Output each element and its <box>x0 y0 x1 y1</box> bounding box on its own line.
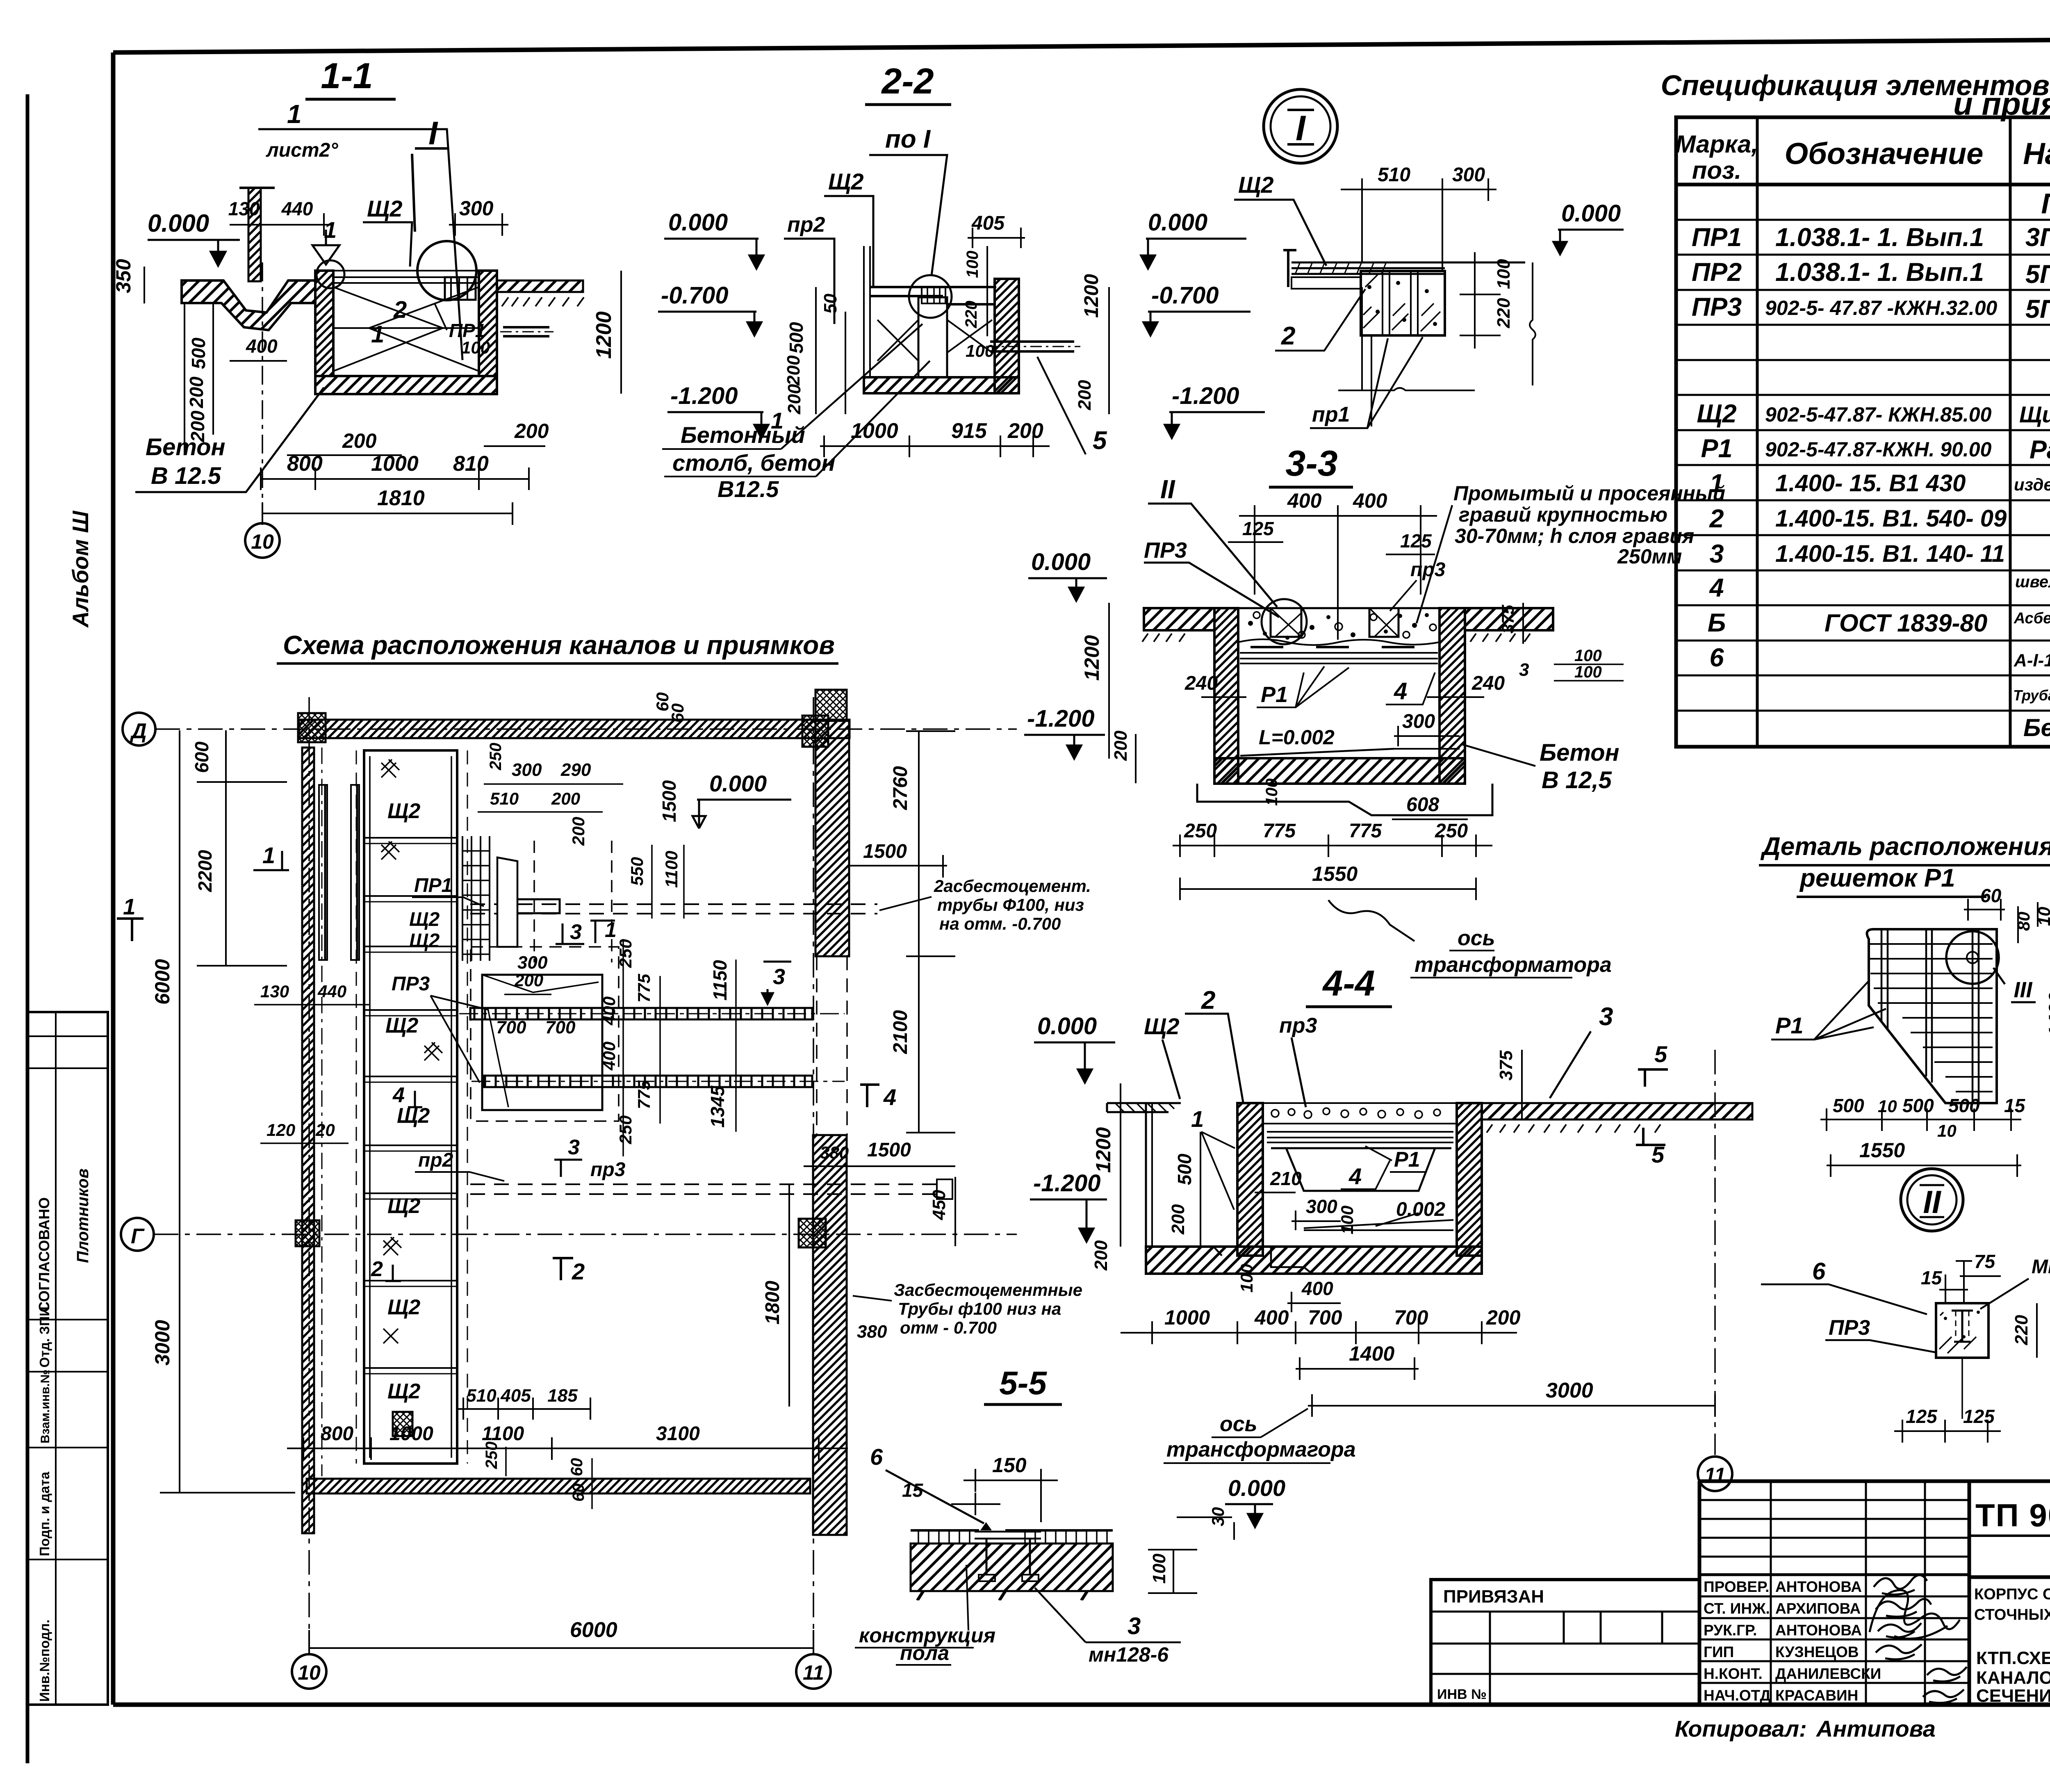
svg-text:1150: 1150 <box>709 960 731 1001</box>
R1 trough <box>1271 1148 1451 1191</box>
svg-text:250: 250 <box>1435 820 1468 842</box>
left top column box <box>298 713 326 742</box>
top wall band axis D <box>299 720 850 738</box>
svg-text:550: 550 <box>627 857 647 886</box>
svg-text:1: 1 <box>605 918 617 942</box>
rails on ledges <box>1240 653 1438 663</box>
circled II <box>1901 1169 1963 1231</box>
svg-text:В 12,5: В 12,5 <box>1542 767 1612 793</box>
central pit dashed + solid <box>471 947 619 1121</box>
svg-text:608: 608 <box>1406 794 1439 816</box>
svg-text:380: 380 <box>820 1143 849 1162</box>
svg-text:810: 810 <box>453 452 489 476</box>
right wall hatched <box>995 279 1019 393</box>
svg-text:300: 300 <box>1452 164 1485 186</box>
svg-text:220: 220 <box>1494 298 1514 328</box>
svg-text:3: 3 <box>1127 1613 1141 1639</box>
axis D <box>123 713 155 746</box>
svg-text:400: 400 <box>1254 1306 1289 1329</box>
vertical bars <box>1881 929 1979 1103</box>
svg-text:1100: 1100 <box>662 851 681 888</box>
truss braces in pit <box>333 287 479 371</box>
svg-text:4: 4 <box>392 1083 405 1107</box>
svg-text:1000: 1000 <box>389 1423 433 1445</box>
svg-text:ПР1: ПР1 <box>414 875 452 896</box>
svg-text:столб, бетон: столб, бетон <box>672 450 835 476</box>
svg-text:Плотников: Плотников <box>74 1168 92 1263</box>
right dims 100 220 <box>1460 252 1501 349</box>
pit walls <box>1214 608 1238 784</box>
svg-text:60: 60 <box>1980 885 2002 906</box>
title block <box>1699 1481 2050 1705</box>
left margin stamp column <box>28 1012 108 1705</box>
svg-text:ось: ось <box>1458 926 1495 950</box>
privyazan box <box>1431 1580 1699 1705</box>
svg-text:10: 10 <box>1878 1097 1897 1116</box>
svg-text:902-5-47.87-КЖН. 90.00: 902-5-47.87-КЖН. 90.00 <box>1765 438 1992 461</box>
svg-text:Н.КОНТ.: Н.КОНТ. <box>1704 1665 1763 1682</box>
right inner wall hatched <box>1457 1103 1482 1256</box>
horizontal panel Sh2 <box>1291 262 1525 274</box>
svg-text:I: I <box>1296 109 1306 148</box>
svg-text:КРАСАВИН: КРАСАВИН <box>1775 1687 1858 1704</box>
axis 10 <box>262 262 263 521</box>
pit right wall <box>479 271 497 376</box>
svg-text:300: 300 <box>459 197 494 220</box>
svg-text:КАНАЛОВ И ПРИЯМКОВ.: КАНАЛОВ И ПРИЯМКОВ. <box>1976 1668 2050 1688</box>
concrete block <box>1936 1303 1988 1358</box>
upper wall stub <box>248 188 261 281</box>
svg-text:1: 1 <box>287 99 302 129</box>
svg-text:ПРИВЯЗАН: ПРИВЯЗАН <box>1443 1587 1544 1607</box>
svg-text:Подп. и дата: Подп. и дата <box>37 1471 52 1556</box>
svg-text:10: 10 <box>251 530 274 553</box>
two tray strips <box>319 785 327 960</box>
svg-text:130: 130 <box>228 198 260 219</box>
svg-text:11: 11 <box>803 1661 824 1684</box>
left wall hatched <box>1237 1103 1263 1256</box>
right ground slab long <box>1482 1103 1752 1119</box>
embedded lintel boxes <box>1271 608 1301 637</box>
svg-text:II: II <box>1923 1184 1941 1220</box>
svg-text:400: 400 <box>246 335 278 357</box>
svg-text:Д: Д <box>130 719 147 743</box>
svg-text:ПР1: ПР1 <box>1692 223 1742 252</box>
svg-text:ПРОВЕР.: ПРОВЕР. <box>1704 1578 1769 1595</box>
svg-text:СОГЛАСОВАНО: СОГЛАСОВАНО <box>36 1197 52 1312</box>
svg-text:200: 200 <box>514 420 549 442</box>
svg-text:МН128-2: МН128-2 <box>2032 1256 2050 1278</box>
ground slabs <box>1144 608 1214 630</box>
svg-text:15: 15 <box>1921 1267 1943 1288</box>
svg-text:3-3: 3-3 <box>1285 443 1337 483</box>
right top column box <box>815 690 847 721</box>
svg-text:405: 405 <box>971 212 1005 234</box>
svg-text:125: 125 <box>1242 518 1274 539</box>
diamond hatch marks <box>381 759 442 1343</box>
bottom slab <box>1214 758 1465 784</box>
left margin: album label <box>68 511 93 628</box>
axis 11 of 4-4 <box>1714 1050 1716 1455</box>
svg-text:200: 200 <box>784 384 804 415</box>
svg-text:АНТОНОВА: АНТОНОВА <box>1775 1578 1862 1595</box>
svg-text:700: 700 <box>1308 1306 1342 1329</box>
svg-text:400: 400 <box>599 996 619 1026</box>
svg-text:СТ. ИНЖ.: СТ. ИНЖ. <box>1704 1600 1770 1617</box>
svg-text:100: 100 <box>966 341 994 360</box>
svg-text:4-4: 4-4 <box>1322 963 1375 1003</box>
gravel layer top <box>1263 1103 1457 1124</box>
svg-text:2: 2 <box>371 1257 383 1281</box>
svg-text:400: 400 <box>1301 1278 1333 1299</box>
svg-text:6: 6 <box>1812 1258 1826 1285</box>
specification table grid <box>1676 117 2050 747</box>
svg-text:15: 15 <box>2004 1095 2026 1116</box>
svg-text:15: 15 <box>902 1480 924 1501</box>
svg-text:5-5: 5-5 <box>999 1365 1047 1401</box>
svg-text:Схема расположения каналов и п: Схема расположения каналов и приямков <box>283 630 835 660</box>
svg-text:2760: 2760 <box>890 766 911 810</box>
axis G <box>121 1218 154 1251</box>
svg-text:10: 10 <box>1937 1121 1957 1140</box>
svg-text:200: 200 <box>1111 730 1131 761</box>
svg-text:290: 290 <box>560 760 591 780</box>
svg-text:6000: 6000 <box>570 1618 617 1642</box>
svg-text:800: 800 <box>287 452 323 476</box>
svg-text:1000: 1000 <box>371 452 419 476</box>
svg-text:5: 5 <box>1654 1041 1667 1067</box>
svg-text:КУЗНЕЦОВ: КУЗНЕЦОВ <box>1775 1644 1859 1660</box>
lintel beam block PR1 end view <box>1361 271 1445 335</box>
svg-text:1000: 1000 <box>851 419 898 443</box>
svg-text:Щ2: Щ2 <box>367 196 403 221</box>
svg-text:КТП.СХЕМА РАСПОЛОЖЕНИЯ: КТП.СХЕМА РАСПОЛОЖЕНИЯ <box>1976 1648 2050 1668</box>
svg-text:100: 100 <box>1574 663 1602 681</box>
svg-text:-0.700: -0.700 <box>661 282 728 309</box>
channel band B <box>483 1076 812 1087</box>
svg-text:1.038.1- 1. Вып.1: 1.038.1- 1. Вып.1 <box>1775 223 1984 252</box>
svg-text:ось: ось <box>1220 1412 1257 1436</box>
svg-text:пр2: пр2 <box>787 213 825 237</box>
svg-text:400: 400 <box>1353 489 1387 512</box>
title block text right <box>1974 1497 2050 1706</box>
svg-text:3: 3 <box>1599 1003 1613 1031</box>
pipe item 5 <box>990 342 1074 351</box>
left column box at G <box>296 1220 319 1246</box>
svg-text:АРХИПОВА: АРХИПОВА <box>1775 1600 1861 1617</box>
svg-text:600: 600 <box>191 741 212 773</box>
svg-text:500: 500 <box>786 322 807 353</box>
svg-text:75: 75 <box>1974 1251 1996 1272</box>
svg-text:-0.700: -0.700 <box>1151 282 1219 309</box>
svg-text:500: 500 <box>1902 1095 1934 1116</box>
embedded part box <box>445 277 476 300</box>
svg-text:пр1: пр1 <box>1312 403 1350 426</box>
right wall strip lower <box>813 1135 847 1535</box>
svg-text:1.400-15. В1. 540- 09: 1.400-15. В1. 540- 09 <box>1775 505 2007 532</box>
svg-text:1-1: 1-1 <box>321 55 373 96</box>
svg-text:2200: 2200 <box>194 850 216 892</box>
svg-text:2: 2 <box>572 1259 585 1284</box>
svg-text:5ПБ 25-27: 5ПБ 25-27 <box>2025 260 2050 289</box>
svg-text:-1.200: -1.200 <box>1027 705 1094 732</box>
svg-text:6000: 6000 <box>151 959 174 1005</box>
svg-text:1100: 1100 <box>482 1423 524 1445</box>
svg-text:1400: 1400 <box>2045 992 2050 1037</box>
svg-text:ПР3: ПР3 <box>1692 293 1742 321</box>
svg-text:200: 200 <box>784 355 804 386</box>
svg-text:Щ2: Щ2 <box>1144 1013 1180 1039</box>
channel dashed top <box>470 904 877 914</box>
svg-text:Обозначение: Обозначение <box>1785 137 1984 171</box>
left thin wall <box>864 246 870 377</box>
svg-text:Щ2: Щ2 <box>409 909 440 930</box>
svg-text:0.000: 0.000 <box>1148 209 1207 236</box>
svg-text:10: 10 <box>298 1661 321 1684</box>
svg-text:210: 210 <box>1270 1168 1302 1189</box>
svg-text:пр3: пр3 <box>1410 559 1446 581</box>
svg-text:6: 6 <box>870 1444 883 1470</box>
svg-text:0.000: 0.000 <box>1228 1475 1285 1501</box>
svg-text:500: 500 <box>1948 1095 1980 1116</box>
svg-text:3: 3 <box>1709 540 1724 568</box>
svg-text:L=0.002: L=0.002 <box>1259 726 1335 749</box>
svg-text:СЕЧЕНИЯ И УЗЛЫ.: СЕЧЕНИЯ И УЗЛЫ. <box>1976 1686 2050 1706</box>
svg-text:Щ2: Щ2 <box>385 1014 418 1037</box>
svg-text:150: 150 <box>992 1454 1027 1477</box>
svg-text:3000: 3000 <box>1546 1379 1593 1402</box>
svg-text:200: 200 <box>1091 1240 1111 1271</box>
svg-text:0.000: 0.000 <box>709 771 767 796</box>
svg-text:400: 400 <box>1287 489 1322 512</box>
svg-text:125: 125 <box>1963 1406 1995 1427</box>
svg-text:2100: 2100 <box>890 1010 911 1054</box>
svg-text:изделие закладное МН414-1: изделие закладное МН414-1 <box>2014 475 2050 494</box>
svg-text:трансформатора: трансформатора <box>1414 953 1612 977</box>
svg-text:Инв.№подл.: Инв.№подл. <box>37 1619 52 1702</box>
svg-text:ПР3: ПР3 <box>1829 1316 1870 1340</box>
svg-text:1800: 1800 <box>762 1281 784 1325</box>
svg-text:1200: 1200 <box>1080 635 1103 681</box>
rails <box>1267 1132 1453 1142</box>
svg-text:220: 220 <box>2011 1315 2032 1345</box>
circled detail I <box>1264 89 1337 163</box>
svg-text:II: II <box>1160 474 1175 504</box>
svg-text:700: 700 <box>545 1017 576 1037</box>
svg-text:10: 10 <box>2034 907 2050 926</box>
svg-text:80: 80 <box>2014 912 2033 931</box>
svg-text:Наименование: Наименование <box>2023 137 2050 171</box>
svg-text:поз.: поз. <box>1692 157 1742 184</box>
svg-text:по I: по I <box>885 125 931 153</box>
channel dashed lower through gap <box>470 1184 937 1194</box>
svg-text:250: 250 <box>616 1115 635 1145</box>
bottom extension line <box>1338 287 1475 426</box>
svg-text:РУК.ГР.: РУК.ГР. <box>1704 1622 1757 1639</box>
svg-text:1200: 1200 <box>1081 274 1102 318</box>
svg-text:1345: 1345 <box>707 1085 728 1128</box>
svg-text:ПР3: ПР3 <box>1144 538 1187 563</box>
svg-text:902-5-47.87- КЖН.85.00: 902-5-47.87- КЖН.85.00 <box>1765 403 1992 426</box>
drawing frame <box>113 37 2050 52</box>
svg-text:3: 3 <box>1519 660 1529 680</box>
svg-text:915: 915 <box>951 419 987 443</box>
svg-text:3: 3 <box>773 964 785 989</box>
svg-text:200: 200 <box>1007 419 1043 443</box>
signatures squiggles <box>1870 1575 1967 1703</box>
svg-text:1500: 1500 <box>658 780 680 822</box>
svg-text:КОРПУС ОБЕЗВОЖИВАНИЯ ОСАДКА: КОРПУС ОБЕЗВОЖИВАНИЯ ОСАДКА <box>1974 1586 2050 1603</box>
svg-text:1000: 1000 <box>1164 1306 1210 1329</box>
svg-text:Бетон: Бетон <box>1540 739 1619 766</box>
svg-text:3: 3 <box>570 920 582 944</box>
svg-text:пола: пола <box>900 1642 949 1664</box>
svg-text:240: 240 <box>1184 673 1218 694</box>
svg-text:300: 300 <box>512 760 542 780</box>
svg-text:240: 240 <box>1471 673 1505 694</box>
svg-text:0.000: 0.000 <box>1037 1013 1097 1040</box>
svg-text:60: 60 <box>568 1458 586 1477</box>
paper left edge <box>26 94 30 1763</box>
svg-text:120: 120 <box>266 1120 295 1140</box>
big detail circle I <box>417 241 476 300</box>
svg-text:60: 60 <box>569 1484 588 1502</box>
table rows text <box>1692 187 2050 741</box>
svg-text:Копировал:: Копировал: <box>1675 1716 1807 1742</box>
svg-text:ПР3: ПР3 <box>392 973 430 995</box>
svg-text:200: 200 <box>342 429 377 452</box>
svg-text:200: 200 <box>1075 380 1095 410</box>
svg-text:20: 20 <box>315 1120 335 1140</box>
Sh2 wall: outer dashed, inner cells <box>356 750 467 1464</box>
svg-text:50: 50 <box>820 294 840 314</box>
svg-text:1200: 1200 <box>1092 1127 1115 1173</box>
svg-text:2: 2 <box>1709 504 1724 533</box>
svg-text:1: 1 <box>1191 1106 1204 1132</box>
gravel layer <box>1238 607 1440 609</box>
grating outline <box>1867 929 1997 1103</box>
svg-text:Г: Г <box>131 1224 145 1248</box>
svg-text:ТП 902-5-47.87: ТП 902-5-47.87 <box>1975 1497 2050 1533</box>
svg-text:440: 440 <box>317 982 346 1001</box>
svg-text:1500: 1500 <box>863 841 907 862</box>
inner step bottom <box>1181 1247 1312 1274</box>
svg-text:2асбестоцемент.: 2асбестоцемент. <box>934 876 1091 896</box>
slab body <box>911 1543 1113 1591</box>
detail circle <box>909 275 952 318</box>
svg-text:1.400- 15. В1 430: 1.400- 15. В1 430 <box>1775 470 1966 497</box>
svg-text:АНТОНОВА: АНТОНОВА <box>1775 1622 1862 1639</box>
svg-text:2: 2 <box>393 296 407 323</box>
svg-text:125: 125 <box>1906 1406 1938 1427</box>
svg-text:100: 100 <box>1574 647 1602 665</box>
svg-text:1500: 1500 <box>867 1139 911 1161</box>
svg-text:Бетон: Бетон <box>146 434 225 461</box>
svg-text:11: 11 <box>1704 1464 1726 1486</box>
svg-text:450: 450 <box>929 1190 949 1220</box>
svg-text:775: 775 <box>634 974 654 1003</box>
svg-text:трансформагора: трансформагора <box>1166 1438 1356 1461</box>
svg-text:А-I-16-ГОСТ5781-82; ℓ. общ.: А-I-16-ГОСТ5781-82; ℓ. общ. <box>2014 650 2050 670</box>
svg-text:250: 250 <box>487 743 505 771</box>
svg-text:6: 6 <box>1709 643 1724 672</box>
rungs <box>1870 944 1993 1092</box>
svg-text:125: 125 <box>1400 530 1432 552</box>
axis 10 vertical <box>308 697 310 1653</box>
bottom footing outline <box>1197 784 1492 815</box>
bottom slab <box>1146 1247 1482 1274</box>
column with braces <box>918 297 947 377</box>
svg-text:200: 200 <box>186 376 207 408</box>
svg-text:185: 185 <box>547 1386 578 1406</box>
svg-text:Щ2: Щ2 <box>1697 399 1736 428</box>
svg-text:Р1: Р1 <box>1775 1012 1804 1038</box>
svg-text:Отд. ЗПИ: Отд. ЗПИ <box>37 1306 52 1368</box>
svg-text:500: 500 <box>1174 1154 1195 1185</box>
svg-text:на отм. -0.700: на отм. -0.700 <box>939 914 1061 933</box>
svg-text:250мм: 250мм <box>1617 545 1682 568</box>
svg-text:510: 510 <box>490 789 519 808</box>
funnel <box>980 1522 992 1530</box>
svg-text:Трубы ф100 низ на: Трубы ф100 низ на <box>898 1299 1061 1318</box>
left niche outline <box>1146 1103 1181 1247</box>
svg-text:200: 200 <box>1168 1204 1188 1235</box>
svg-text:500: 500 <box>188 337 209 369</box>
svg-text:5ПБ 18 -27а: 5ПБ 18 -27а <box>2025 295 2050 324</box>
svg-text:800: 800 <box>321 1423 353 1445</box>
svg-text:Щ2: Щ2 <box>387 799 420 823</box>
svg-text:гравий крупностью: гравий крупностью <box>1459 503 1667 526</box>
svg-text:2: 2 <box>1281 322 1295 350</box>
pit bottom slab <box>315 376 497 394</box>
svg-text:трубы Ф100, низ: трубы Ф100, низ <box>937 895 1084 914</box>
axis 11 vertical <box>813 697 814 1653</box>
svg-text:1: 1 <box>262 842 275 868</box>
svg-text:4: 4 <box>883 1084 896 1110</box>
small detail circle <box>317 260 344 288</box>
svg-text:100: 100 <box>963 251 982 278</box>
svg-text:200: 200 <box>551 789 580 808</box>
svg-text:ГОСТ 1839-80: ГОСТ 1839-80 <box>1824 609 1987 637</box>
svg-text:-1.200: -1.200 <box>1172 383 1239 409</box>
specification table title <box>1661 69 2050 122</box>
svg-text:Щ2: Щ2 <box>1238 172 1274 198</box>
svg-text:0.000: 0.000 <box>668 209 728 236</box>
svg-text:0.000: 0.000 <box>1561 200 1621 227</box>
signature rows <box>1704 1578 1881 1704</box>
svg-text:1550: 1550 <box>1859 1139 1905 1162</box>
pit left wall <box>315 271 333 376</box>
svg-text:Деталь расположения: Деталь расположения <box>1760 832 2050 861</box>
svg-text:5: 5 <box>1093 426 1107 455</box>
svg-text:250: 250 <box>1184 820 1217 842</box>
svg-text:130: 130 <box>260 982 289 1001</box>
channel band A <box>470 1008 812 1019</box>
top slab left part <box>1107 1103 1173 1112</box>
svg-text:440: 440 <box>281 198 313 219</box>
svg-text:Р1: Р1 <box>1701 434 1732 463</box>
svg-text:2: 2 <box>1201 986 1215 1015</box>
svg-text:1810: 1810 <box>377 486 425 510</box>
right wall strip upper <box>815 721 849 956</box>
lower flange band left <box>1291 277 1361 289</box>
svg-text:Асбестоцементная труба: Асбестоцементная труба <box>2014 610 2050 627</box>
svg-text:100: 100 <box>1263 778 1281 806</box>
svg-text:Б: Б <box>1708 609 1726 637</box>
svg-text:100: 100 <box>461 338 490 357</box>
svg-text:отм - 0.700: отм - 0.700 <box>900 1318 997 1337</box>
svg-text:мн128-6: мн128-6 <box>1089 1643 1169 1666</box>
